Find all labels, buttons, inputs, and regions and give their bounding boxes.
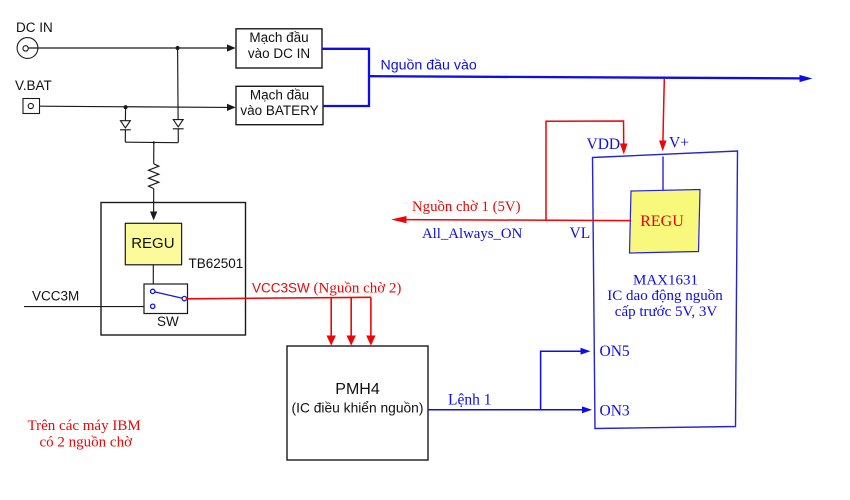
wire joining diode cathodes <box>125 141 178 144</box>
wire blue from DC IN block to bus <box>322 49 369 106</box>
wire blue Lenh 1 from PMH4 to ON3 <box>428 409 584 411</box>
svg-text:VL: VL <box>570 225 591 242</box>
svg-text:ON5: ON5 <box>600 343 630 360</box>
wire DC IN junction down to diode D2 <box>177 48 180 120</box>
label MAX1631 description <box>607 272 723 320</box>
svg-text:VCC3SW (Nguồn chờ 2): VCC3SW (Nguồn chờ 2) <box>252 280 401 296</box>
svg-text:vào BATERY: vào BATERY <box>240 103 318 118</box>
svg-text:Mạch đầu: Mạch đầu <box>249 30 308 45</box>
diode D1 <box>120 121 131 143</box>
wire blue branch up to ON5 <box>541 351 581 410</box>
svg-text:ON3: ON3 <box>600 402 630 419</box>
block Mach dau vao BATERY <box>236 86 323 124</box>
wire red VDD feedback path <box>546 121 624 220</box>
wire red drop 2 into PMH4 <box>350 298 352 337</box>
svg-text:SW: SW <box>157 314 179 329</box>
connector J1 DC IN <box>17 38 38 59</box>
svg-text:(IC điều khiển nguồn): (IC điều khiển nguồn) <box>292 400 424 415</box>
svg-text:Mạch đầu: Mạch đầu <box>250 88 309 103</box>
junction on DC IN wire <box>176 46 180 50</box>
svg-text:Lệnh 1: Lệnh 1 <box>448 392 491 409</box>
svg-text:DC IN: DC IN <box>16 20 53 35</box>
diode D2 <box>173 120 184 143</box>
wire red V+ from bus down to MAX1631 <box>663 79 664 142</box>
svg-text:V+: V+ <box>669 135 689 152</box>
IC U3 PMH4 outline <box>287 346 428 460</box>
svg-text:VCC3M: VCC3M <box>32 289 79 304</box>
wire DC IN to Mach dau vao DC IN box <box>29 47 229 49</box>
junction below diodes <box>153 141 155 143</box>
svg-text:V.BAT: V.BAT <box>15 78 52 93</box>
svg-text:vào DC IN: vào DC IN <box>248 46 310 61</box>
wire red drop 1 into PMH4 <box>330 298 332 337</box>
svg-text:REGU: REGU <box>131 235 174 252</box>
switch SW contacts and blade <box>151 289 187 308</box>
IC U2 MAX1631 outline <box>593 151 738 429</box>
svg-text:Trên các máy IBM: Trên các máy IBM <box>28 418 141 434</box>
svg-text:All_Always_ON: All_Always_ON <box>422 226 523 242</box>
svg-text:TB62501: TB62501 <box>189 256 244 271</box>
svg-text:Nguồn đầu vào: Nguồn đầu vào <box>381 57 477 73</box>
svg-text:MAX1631: MAX1631 <box>633 272 698 288</box>
regulator REGU inside MAX1631 <box>630 190 701 254</box>
wire red drop 3 into PMH4 <box>370 297 372 336</box>
wire red VCC3SW from switch <box>186 297 371 299</box>
note Tren cac may IBM co 2 nguon cho <box>28 418 141 451</box>
IC U1 TB62501 outline <box>101 203 246 336</box>
wire REGU to switch SW <box>152 265 154 284</box>
svg-text:REGU: REGU <box>640 213 684 230</box>
wire V.BAT junction down to diode D1 <box>124 107 126 120</box>
wire VCC3M to switch <box>24 306 144 308</box>
svg-text:PMH4: PMH4 <box>335 381 380 398</box>
svg-text:cấp trước 5V, 3V: cấp trước 5V, 3V <box>615 304 718 320</box>
connector J2 V.BAT <box>23 99 40 114</box>
wire V.BAT to Mach dau vao BATERY box <box>40 106 229 107</box>
wire resistor R1 to REGU of TB62501 with arrowhead <box>153 189 155 213</box>
wire junction to resistor R1 <box>153 143 155 164</box>
resistor R1 <box>149 164 159 189</box>
svg-text:VDD: VDD <box>587 136 621 153</box>
svg-text:Nguồn chờ 1 (5V): Nguồn chờ 1 (5V) <box>412 199 521 215</box>
wire red VL standby rail with left arrow <box>404 220 631 221</box>
regulator REGU inside TB62501 <box>125 223 181 264</box>
block Mach dau vao DC IN <box>236 29 322 68</box>
wire blue V+ pin to REGU <box>662 157 664 191</box>
node bus Nguon dau vao <box>369 76 801 78</box>
svg-text:IC dao động nguồn: IC dao động nguồn <box>607 288 723 304</box>
svg-text:có 2 nguồn chờ: có 2 nguồn chờ <box>40 434 134 450</box>
junction on V.BAT wire <box>124 105 128 109</box>
switch SW box <box>144 284 188 314</box>
